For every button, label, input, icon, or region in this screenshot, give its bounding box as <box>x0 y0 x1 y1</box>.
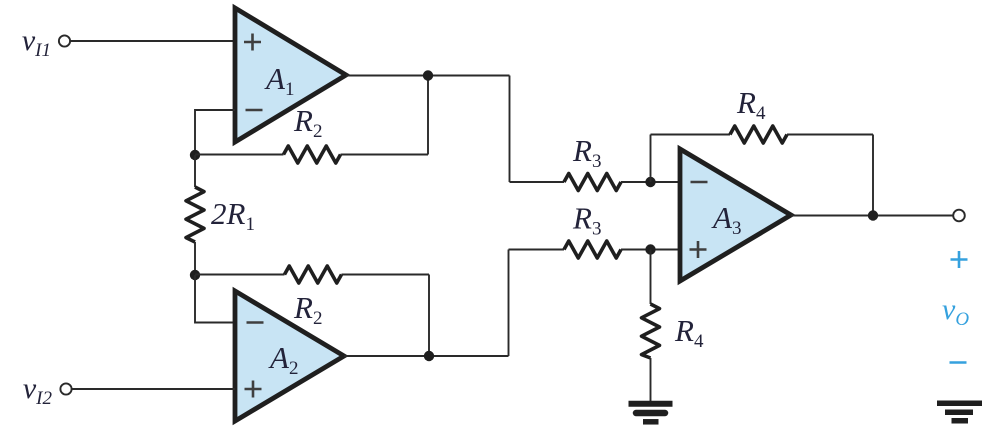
wire A2 minus input <box>195 275 235 323</box>
resistor R4 feedback <box>651 85 874 216</box>
resistor R4 to ground <box>642 250 704 403</box>
resistor R3 top <box>510 133 681 191</box>
node junction A3 output <box>868 210 878 220</box>
resistor R2 top <box>195 76 428 164</box>
terminal vI1 <box>59 35 70 46</box>
label + output polarity <box>951 251 968 268</box>
wire A3 output <box>791 215 953 217</box>
node junction A1 output <box>423 70 433 80</box>
node junction A2 output <box>424 351 434 361</box>
op-amp A2 <box>235 291 344 421</box>
node junction A3 minus <box>645 177 655 187</box>
resistor 2R1 <box>186 155 255 275</box>
wire vI1 to A1 + input <box>71 40 236 42</box>
label - output polarity <box>950 361 967 364</box>
ground right <box>937 403 982 421</box>
wire A2 output <box>344 250 509 357</box>
resistor R3 bottom <box>509 201 681 259</box>
node junction top-left <box>190 150 200 160</box>
node junction bottom-left <box>190 270 200 280</box>
wire vI2 to A2 + input <box>72 388 235 390</box>
op-amp A1 <box>235 8 346 142</box>
op-amp A3 <box>680 149 791 281</box>
terminal vO <box>953 210 965 222</box>
terminal vI2 <box>60 383 71 394</box>
wire A1 output <box>346 76 510 183</box>
ground middle <box>629 404 673 422</box>
node junction A3 plus <box>645 244 655 254</box>
resistor R2 bottom <box>195 266 429 356</box>
wire A1 minus input <box>195 110 235 155</box>
